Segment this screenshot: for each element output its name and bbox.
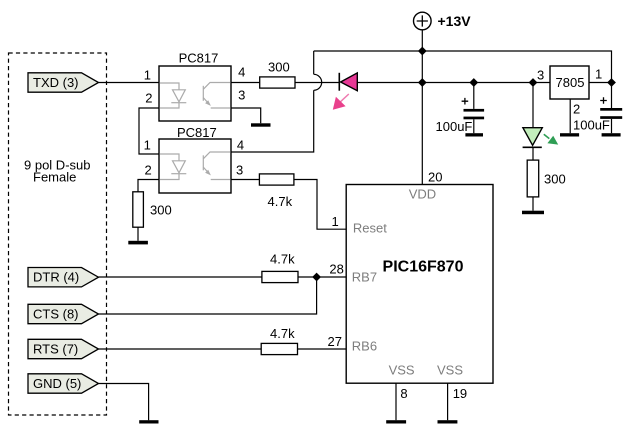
junction left capacitor at LED wire	[469, 78, 478, 87]
resistor R3 4.7k (to PIC Reset)	[259, 174, 294, 209]
svg-text:PC817: PC817	[179, 50, 219, 65]
resistor R2 300 (vertical, under U2 pin2)	[133, 192, 172, 227]
node CTS (8) connector flag	[28, 304, 99, 323]
wire R5 to PIC RB6 pin 27	[298, 348, 347, 350]
resistor R6 300 (vertical, green LED)	[527, 160, 566, 197]
resistor R5 4.7k (RTS to RB6)	[261, 326, 297, 355]
connector shell: 9 pol D-sub dashed outline	[9, 53, 107, 415]
capacitor C2 100uF (right)	[573, 83, 622, 134]
svg-text:2: 2	[145, 163, 152, 178]
wire VDD riser down to PIC pin 20	[421, 51, 423, 185]
svg-text:4.7k: 4.7k	[270, 251, 295, 266]
svg-text:300: 300	[150, 203, 172, 218]
wire U1 pin3 to ground	[231, 108, 261, 123]
wire DTR to resistor R4	[99, 276, 262, 278]
ground under PIC pin 8	[386, 420, 406, 423]
U1 internal phototransistor symbol	[203, 83, 230, 109]
LED D2 emission arrow (green)	[544, 134, 558, 144]
node RTS (7) connector flag	[28, 339, 99, 358]
ground under U1 pin 3	[251, 123, 271, 126]
wire down to LED D2	[532, 83, 534, 128]
svg-text:1: 1	[595, 67, 602, 82]
resistor R1 300 (horizontal)	[260, 60, 295, 89]
U2 internal LED symbol	[160, 154, 187, 180]
junction at rail and +13V	[418, 47, 427, 56]
ground under C2	[602, 133, 621, 136]
svg-text:19: 19	[453, 386, 467, 401]
node GND (5) connector flag	[28, 374, 99, 393]
svg-text:VDD: VDD	[409, 186, 436, 201]
junction CTS/DTR at RB7	[312, 273, 321, 282]
svg-text:2: 2	[145, 91, 152, 106]
wire GND(5) to ground	[99, 384, 149, 421]
wire +13V symbol to rail	[421, 30, 423, 51]
junction right rail at pin 1	[607, 78, 616, 87]
wire U2 pin4 up to top rail with hop over LED wire	[231, 51, 322, 152]
ground under C1	[465, 133, 483, 136]
ground under 7805 pin 2	[560, 133, 579, 136]
svg-text:VSS: VSS	[437, 363, 463, 378]
wire LED D1 to 7805 pin 3 (VDD net)	[357, 82, 550, 84]
ground under R2	[128, 241, 148, 245]
wire R3 to PIC Reset pin 1	[294, 180, 346, 230]
U1 internal LED symbol	[160, 83, 187, 108]
node TXD (3) connector flag	[28, 73, 99, 92]
svg-text:4: 4	[237, 138, 244, 153]
svg-text:+13V: +13V	[438, 13, 472, 29]
power symbol +13V	[414, 12, 472, 30]
svg-text:28: 28	[329, 261, 343, 276]
svg-text:PIC16F870: PIC16F870	[383, 258, 464, 275]
wire PIC pin 8 to ground	[395, 383, 397, 420]
svg-text:20: 20	[428, 170, 442, 185]
svg-text:CTS (8): CTS (8)	[33, 307, 79, 322]
svg-text:8: 8	[400, 386, 407, 401]
node DTR (4) connector flag	[28, 268, 99, 287]
svg-text:Female: Female	[33, 170, 76, 185]
svg-text:4: 4	[238, 65, 245, 80]
op-amp U2 optocoupler PC817 box	[159, 125, 231, 193]
svg-text:2: 2	[573, 102, 580, 117]
capacitor C1 100uF (left)	[436, 83, 485, 135]
svg-text:1: 1	[332, 214, 339, 229]
wire U1 pin4 to resistor R1	[231, 82, 260, 84]
svg-text:PC817: PC817	[177, 125, 217, 140]
junction green LED branch at LED wire	[529, 78, 538, 87]
svg-text:100uF: 100uF	[436, 119, 473, 134]
svg-text:RTS (7): RTS (7)	[33, 342, 78, 357]
wire 7805 pin 2 to ground	[569, 99, 571, 133]
svg-text:300: 300	[268, 60, 290, 75]
ground under PIC pin 19	[438, 420, 458, 423]
ground under GND(5)	[139, 420, 158, 423]
wire U2 pin3 to resistor R3	[231, 179, 259, 181]
svg-text:100uF: 100uF	[573, 118, 610, 133]
svg-text:VSS: VSS	[389, 363, 415, 378]
svg-text:7805: 7805	[556, 75, 585, 90]
U2 internal phototransistor symbol	[203, 152, 230, 180]
LED D2 (green, pointing down)	[523, 128, 543, 148]
svg-text:1: 1	[144, 68, 151, 83]
wire 7805 pin 1 to right rail	[589, 82, 612, 84]
junction VDD riser at LED wire	[418, 78, 427, 87]
wire PIC pin 19 to ground	[447, 383, 449, 420]
wire U1 pin2 to U2 pin1	[139, 108, 159, 154]
svg-text:RB7: RB7	[352, 270, 377, 285]
ground under R6	[522, 211, 544, 215]
LED D1 (pink, pointing left)	[339, 73, 357, 91]
wire R2 to ground	[137, 227, 139, 241]
svg-text:Reset: Reset	[353, 221, 387, 236]
wire CTS up to RB7 node	[99, 277, 317, 314]
wire top +13V rail	[314, 51, 612, 83]
svg-text:300: 300	[544, 172, 566, 187]
op-amp U1 optocoupler PC817 box	[159, 50, 231, 121]
wire R6 to ground	[532, 197, 534, 211]
svg-text:1: 1	[144, 138, 151, 153]
svg-text:4.7k: 4.7k	[268, 194, 293, 209]
resistor R4 4.7k (DTR to RB7)	[262, 251, 298, 282]
svg-text:4.7k: 4.7k	[270, 326, 295, 341]
wire D2 to resistor R6	[532, 147, 534, 160]
svg-text:RB6: RB6	[352, 339, 377, 354]
wire R1 to LED D1 (passes under wire hop)	[295, 82, 339, 84]
svg-text:3: 3	[236, 163, 243, 178]
LED D1 emission arrow (pink)	[333, 94, 349, 110]
IC U3 PIC16F870 box	[346, 185, 493, 384]
svg-text:GND (5): GND (5)	[33, 376, 81, 391]
svg-text:DTR (4): DTR (4)	[33, 270, 79, 285]
wire RTS to resistor R5	[99, 348, 262, 350]
wire U2 pin2 down to resistor R2	[138, 180, 159, 192]
svg-text:TXD (3): TXD (3)	[33, 75, 79, 90]
svg-text:27: 27	[328, 334, 342, 349]
svg-text:3: 3	[238, 88, 245, 103]
IC U4 7805 regulator box	[550, 66, 589, 99]
wire R4 to PIC RB7 pin 28	[298, 276, 346, 278]
svg-text:3: 3	[537, 68, 544, 83]
wire TXD to opto U1 pin 1	[99, 82, 160, 84]
